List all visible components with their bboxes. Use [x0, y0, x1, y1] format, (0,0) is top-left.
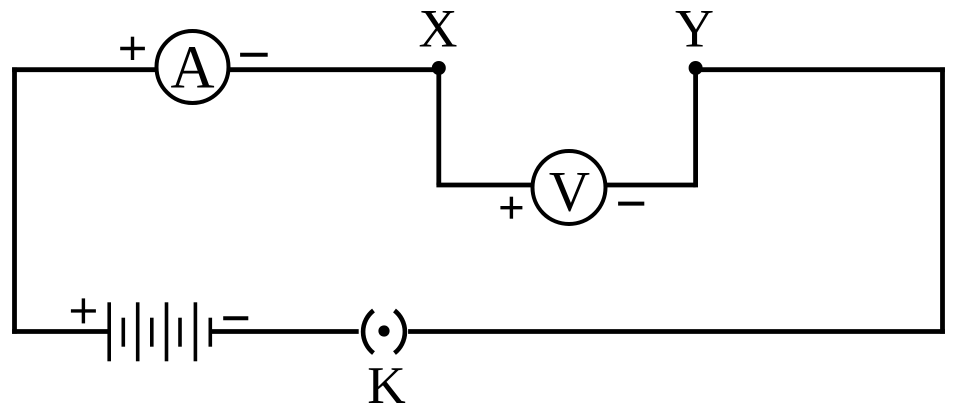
wire node Y down — [693, 68, 698, 187]
svg-text:K: K — [367, 357, 406, 413]
key K — [363, 311, 405, 354]
ammeter A — [157, 31, 229, 103]
wire bottom-left segment to battery — [12, 329, 109, 334]
svg-text:V: V — [549, 160, 590, 223]
wire bottom-right segment — [408, 329, 945, 334]
wire node X down — [436, 68, 441, 185]
voltmeter minus label — [618, 202, 644, 206]
wire top-left segment to ammeter — [12, 67, 192, 72]
svg-text:A: A — [170, 35, 214, 102]
key K label — [367, 357, 406, 413]
battery — [109, 302, 210, 361]
wire voltmeter to Y branch — [569, 183, 696, 188]
wire battery to key — [210, 329, 358, 334]
svg-text:X: X — [419, 0, 458, 59]
wire left vertical — [12, 67, 17, 333]
battery plus label — [71, 298, 96, 323]
wire ammeter to node X — [192, 67, 439, 72]
voltmeter V — [533, 151, 606, 224]
wire node Y to top-right corner — [696, 67, 945, 72]
ammeter minus label — [240, 53, 268, 57]
node Y label — [675, 0, 714, 59]
wire X branch to voltmeter — [436, 183, 569, 188]
node X label — [419, 0, 458, 59]
node Y junction dot — [689, 61, 703, 75]
voltmeter plus label — [500, 197, 522, 219]
node X junction dot — [432, 61, 446, 75]
wire right vertical — [940, 67, 945, 333]
svg-text:Y: Y — [675, 0, 714, 59]
ammeter plus label — [120, 37, 145, 60]
battery minus label — [223, 316, 248, 320]
